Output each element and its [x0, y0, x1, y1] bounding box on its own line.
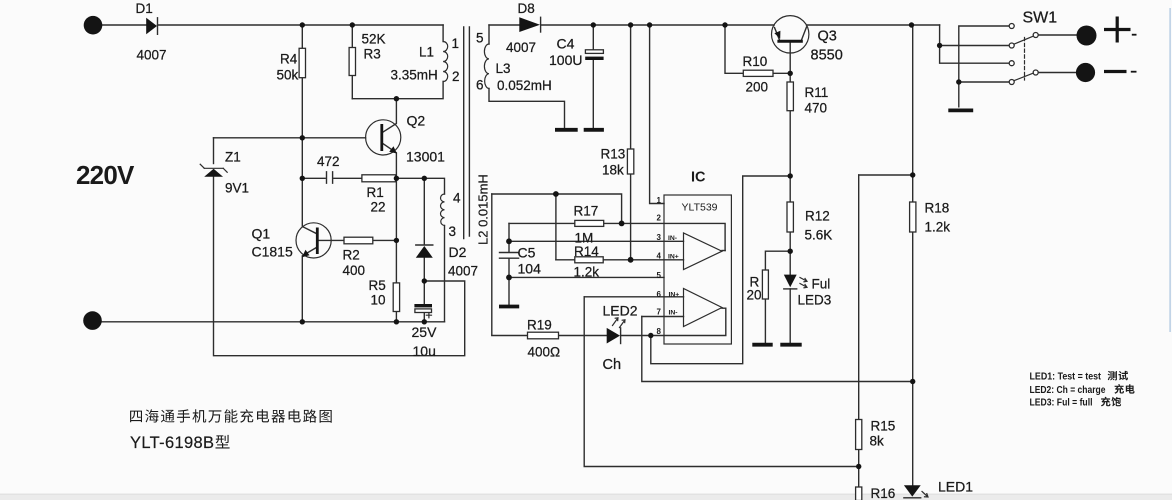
- svg-text:Q1: Q1: [252, 226, 271, 242]
- svg-text:R18: R18: [925, 201, 950, 216]
- svg-text:100U: 100U: [549, 52, 582, 68]
- svg-text:4007: 4007: [137, 48, 167, 63]
- svg-text:8: 8: [657, 327, 662, 336]
- svg-text:L3: L3: [496, 61, 511, 76]
- svg-text:8550: 8550: [811, 48, 843, 64]
- svg-text:SW1: SW1: [1023, 10, 1058, 27]
- svg-text:4007: 4007: [506, 40, 536, 55]
- svg-text:20: 20: [747, 288, 762, 303]
- svg-text:R10: R10: [743, 54, 768, 69]
- svg-text:470: 470: [805, 101, 828, 116]
- svg-text:R13: R13: [601, 147, 626, 162]
- svg-text:LED3: Ful = full: LED3: Ful = full: [1030, 398, 1093, 409]
- svg-text:LED2: Ch = charge: LED2: Ch = charge: [1030, 385, 1106, 396]
- svg-text:YLT539: YLT539: [682, 202, 718, 214]
- svg-text:13001: 13001: [406, 149, 445, 165]
- svg-text:4007: 4007: [448, 264, 478, 279]
- svg-text:R16: R16: [871, 486, 896, 500]
- svg-text:D2: D2: [449, 244, 467, 260]
- svg-text:200: 200: [746, 80, 769, 95]
- svg-text:9V1: 9V1: [225, 181, 249, 196]
- svg-text:R2: R2: [343, 248, 360, 263]
- svg-text:Q2: Q2: [407, 113, 426, 129]
- svg-text:5.6K: 5.6K: [805, 228, 833, 243]
- svg-text:3.35mH: 3.35mH: [391, 68, 438, 83]
- svg-text:Z1: Z1: [225, 150, 241, 165]
- svg-text:D1: D1: [136, 1, 153, 16]
- svg-text:IN+: IN+: [668, 254, 679, 261]
- svg-text:104: 104: [518, 261, 542, 277]
- svg-text:2: 2: [657, 214, 662, 223]
- svg-text:6: 6: [476, 78, 484, 93]
- svg-text:52K: 52K: [362, 32, 386, 47]
- svg-text:R15: R15: [871, 419, 896, 434]
- svg-text:6: 6: [657, 290, 662, 299]
- svg-text:R14: R14: [574, 244, 599, 259]
- svg-text:C5: C5: [518, 245, 536, 261]
- svg-text:4: 4: [657, 252, 662, 261]
- svg-text:LED2: LED2: [603, 303, 638, 319]
- svg-text:1.2k: 1.2k: [925, 220, 951, 235]
- svg-text:R3: R3: [364, 47, 381, 62]
- svg-text:10u: 10u: [413, 343, 436, 359]
- svg-text:C1815: C1815: [252, 244, 293, 260]
- svg-text:LED3: LED3: [798, 293, 832, 308]
- svg-text:400: 400: [343, 263, 366, 278]
- svg-text:IN+: IN+: [669, 292, 680, 299]
- svg-text:3: 3: [657, 233, 662, 242]
- svg-text:Ful: Ful: [812, 277, 831, 292]
- svg-text:R17: R17: [574, 204, 599, 219]
- svg-text:L2 0.015mH: L2 0.015mH: [476, 174, 491, 245]
- svg-text:5: 5: [476, 31, 484, 46]
- svg-text:IN-: IN-: [669, 310, 678, 317]
- svg-text:R19: R19: [527, 318, 552, 333]
- svg-text:4: 4: [453, 191, 461, 206]
- svg-text:D8: D8: [518, 1, 535, 16]
- svg-text:10: 10: [371, 293, 386, 308]
- svg-text:L1: L1: [419, 45, 434, 60]
- svg-text:1: 1: [657, 196, 662, 205]
- svg-text:R12: R12: [805, 209, 830, 224]
- svg-text:5: 5: [657, 271, 662, 280]
- svg-text:7: 7: [657, 308, 662, 317]
- svg-text:R5: R5: [369, 278, 386, 293]
- svg-text:8k: 8k: [870, 434, 885, 449]
- svg-text:472: 472: [317, 154, 340, 169]
- svg-text:IC: IC: [691, 170, 706, 186]
- svg-text:IN-: IN-: [668, 235, 677, 242]
- svg-text:LED1: Test = test: LED1: Test = test: [1030, 372, 1102, 383]
- svg-text:1: 1: [452, 36, 460, 51]
- svg-text:25V: 25V: [412, 324, 438, 340]
- svg-text:22: 22: [371, 200, 386, 215]
- svg-text:R11: R11: [805, 85, 829, 100]
- svg-text:50k: 50k: [277, 68, 299, 83]
- svg-text:YLT-6198B: YLT-6198B: [130, 434, 214, 452]
- svg-text:18k: 18k: [602, 163, 624, 178]
- svg-text:220V: 220V: [76, 160, 135, 190]
- svg-text:2: 2: [452, 69, 460, 84]
- svg-text:Ch: Ch: [603, 357, 622, 373]
- svg-text:LED1: LED1: [938, 479, 973, 495]
- svg-text:1.2k: 1.2k: [574, 265, 600, 280]
- svg-text:Q3: Q3: [818, 29, 837, 45]
- svg-text:400Ω: 400Ω: [528, 345, 561, 360]
- svg-text:0.052mH: 0.052mH: [497, 78, 552, 93]
- svg-text:3: 3: [449, 224, 457, 239]
- svg-text:C4: C4: [557, 36, 575, 52]
- svg-text:R1: R1: [367, 185, 384, 200]
- svg-text:R4: R4: [280, 52, 298, 67]
